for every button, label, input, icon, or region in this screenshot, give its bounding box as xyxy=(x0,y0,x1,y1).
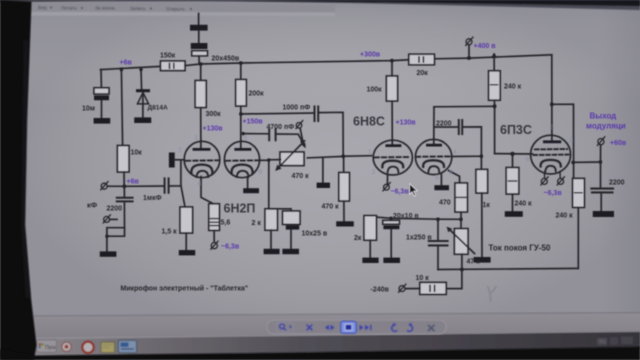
ground xyxy=(505,211,523,217)
svg-text:Д814А: Д814А xyxy=(148,105,168,112)
resistor R8 inner mark xyxy=(508,180,516,182)
arrowhead xyxy=(447,227,453,233)
resistor R7 240k leads xyxy=(493,55,496,107)
capacitor C1 10uF plate xyxy=(94,88,109,94)
svg-text:240 к: 240 к xyxy=(504,84,522,91)
value labels dark xyxy=(82,53,625,294)
node phi output xyxy=(598,139,604,145)
capacitor C8 bottom lead xyxy=(600,193,602,211)
arrowhead xyxy=(301,143,306,149)
capacitor C10 1uF plates xyxy=(165,178,169,192)
node j22 xyxy=(599,160,602,163)
svg-text:Выход: Выход xyxy=(590,112,617,121)
node phi input xyxy=(101,183,107,189)
svg-text:6Н2П: 6Н2П xyxy=(224,202,256,216)
node j9 xyxy=(510,152,514,156)
taskbar start button xyxy=(37,340,57,353)
voltage labels purple xyxy=(120,43,627,251)
svg-text:2200: 2200 xyxy=(436,121,452,128)
svg-text:▼: ▼ xyxy=(189,6,193,11)
potentiometer P1 470k body xyxy=(280,152,304,166)
svg-text:1: 1 xyxy=(368,149,372,156)
svg-text:2: 2 xyxy=(550,124,554,131)
svg-text:240 к: 240 к xyxy=(556,213,574,220)
tube V1b 6N2P right envelope xyxy=(224,141,259,177)
mouse cursor xyxy=(410,184,418,197)
resistor R12 10k bias body xyxy=(420,282,446,294)
ground xyxy=(282,249,299,254)
node phi heater3a slash xyxy=(541,177,548,185)
ground xyxy=(134,117,151,123)
capacitor C2 plate1 xyxy=(190,25,208,31)
svg-text:10х25 в: 10х25 в xyxy=(302,231,328,238)
resistor R11 bottom lead xyxy=(369,240,371,257)
svg-text:Ток покоя ГУ-50: Ток покоя ГУ-50 xyxy=(489,244,551,253)
resistor R3 200k body xyxy=(236,80,247,107)
svg-text:1000 пФ: 1000 пФ xyxy=(283,105,311,112)
node phi mic slash xyxy=(103,215,110,223)
resistor R6 marks xyxy=(419,57,423,62)
svg-text:470 к: 470 к xyxy=(322,204,340,211)
resistor R1 marks xyxy=(170,64,174,69)
wire cathode link xyxy=(452,155,482,157)
node phi heater2 slash xyxy=(383,183,390,191)
node j2 xyxy=(139,68,142,71)
tube type labels xyxy=(224,115,532,216)
capacitor C4 right lead arrow xyxy=(277,134,305,146)
tube V2a cathode arch xyxy=(382,161,403,168)
component 5.6 body xyxy=(209,204,220,231)
svg-text:~6,3в: ~6,3в xyxy=(391,189,410,196)
resistor R7 240k body xyxy=(489,71,501,100)
svg-text:150к: 150к xyxy=(160,53,176,60)
wire input to junction xyxy=(107,185,124,187)
node j14 xyxy=(267,158,270,161)
resistor R13 bottom lead xyxy=(577,207,579,268)
resistor R15 1k5 body xyxy=(180,207,193,233)
potentiometer P2 47k top lead xyxy=(460,219,462,228)
node phi -240v xyxy=(399,286,405,292)
svg-text:9: 9 xyxy=(259,169,263,176)
svg-text:Запись: Запись xyxy=(130,6,146,12)
schematic drawing layer xyxy=(94,14,614,295)
svg-text:+300в: +300в xyxy=(360,52,381,59)
ground xyxy=(434,185,449,190)
wire cap 10x25 link xyxy=(269,209,291,211)
svg-text:2 к: 2 к xyxy=(252,220,262,227)
svg-text:10м: 10м xyxy=(82,106,95,113)
svg-text:+150в: +150в xyxy=(243,119,264,126)
resistor R16 bottom lead xyxy=(270,230,272,249)
zener diode D1 triangle xyxy=(137,93,148,104)
capacitor C4 4700pF left lead xyxy=(243,133,268,135)
node j16 xyxy=(105,235,108,238)
node phi heater3b slash xyxy=(557,177,564,185)
ground xyxy=(593,211,614,217)
wire 6N8S right anode lead xyxy=(433,107,435,145)
tube V2a heater cup xyxy=(388,167,399,173)
potentiometer P2 arrow xyxy=(450,230,475,254)
node phi +400 slash xyxy=(466,37,473,45)
capacitor C7 plates xyxy=(429,241,448,245)
node j11 xyxy=(239,112,242,115)
tube V2b anode bar xyxy=(426,144,442,147)
capacitor C2 bottom lead xyxy=(198,56,200,64)
svg-text:1х250 в: 1х250 в xyxy=(406,235,432,242)
potentiometer P1 wiper stub xyxy=(300,128,302,140)
svg-text:6П3С: 6П3С xyxy=(500,123,532,137)
capacitor C8 2200 out plates xyxy=(591,189,613,193)
node phi heater1 xyxy=(211,243,217,249)
monitor left bezel xyxy=(0,0,37,360)
tube V2a grid dashes xyxy=(375,156,411,158)
capacitor C1 bottom lead xyxy=(101,100,103,118)
node phi heater2 xyxy=(384,184,390,190)
wire output phi stub xyxy=(600,146,602,188)
grid bar 6N2P input xyxy=(169,153,175,168)
tube V1b grid dashes xyxy=(226,159,259,162)
wire pot link xyxy=(307,156,343,158)
ground xyxy=(94,118,111,124)
monitor top bezel xyxy=(0,0,640,10)
zener diode D1 cathode bar xyxy=(136,89,150,92)
tube V1a grid dashes xyxy=(186,159,218,162)
resistor R12 marks xyxy=(430,286,435,292)
svg-text:4: 4 xyxy=(198,181,202,188)
tube V1a heater cup xyxy=(197,171,209,177)
svg-text:Печать: Печать xyxy=(61,5,77,11)
svg-text:47 к: 47 к xyxy=(467,259,481,266)
resistor R4 470k body xyxy=(339,173,350,202)
node phi pot slash xyxy=(296,121,303,129)
wire HT bus right section xyxy=(434,55,551,59)
resistor R14 bottom lead xyxy=(123,172,125,186)
tube V1b cathode lead xyxy=(247,177,249,188)
capacitor C7 1x250 top lead xyxy=(437,219,439,240)
wire mic to coupling cap xyxy=(124,185,163,187)
wire bias rail xyxy=(438,268,578,269)
tube V2a cathode lead xyxy=(386,175,388,184)
capacitor C9 bottom lead xyxy=(123,202,125,227)
ground xyxy=(362,258,378,263)
tube V1b anode bar xyxy=(234,148,251,151)
tube V2a anode bar xyxy=(385,144,401,147)
tube V2b grid dashes xyxy=(416,155,452,157)
tube V2b cathode arch xyxy=(423,160,444,167)
microphone M1 loop xyxy=(107,228,125,237)
wire output tap xyxy=(573,161,600,163)
right edge shading xyxy=(0,0,1,1)
wire grid drop 6P3S xyxy=(494,106,496,153)
wire +6v rail top-left xyxy=(101,66,161,69)
node j23 xyxy=(550,103,554,107)
svg-text:1: 1 xyxy=(195,135,199,142)
svg-text:2к: 2к xyxy=(354,235,362,242)
resistor R10 bottom lead xyxy=(460,212,462,219)
resistor R13 240k body xyxy=(573,178,585,207)
component 5.6 bottom lead xyxy=(213,230,215,241)
component 5.6 marks xyxy=(210,219,217,226)
tube V3 cathode arch xyxy=(541,160,561,167)
capacitor C5 2200 left lead xyxy=(434,126,458,128)
svg-text:+60в: +60в xyxy=(610,140,627,147)
capacitor C7 bottom lead xyxy=(437,246,439,269)
node j21 xyxy=(571,161,574,164)
svg-text:300к: 300к xyxy=(206,111,222,118)
capacitor C-10uF top lead xyxy=(100,70,102,88)
node j19 xyxy=(459,218,462,221)
tube V3 grid2 dashes xyxy=(534,154,569,156)
node j7 arrow xyxy=(491,53,497,58)
tube V3 heater leads xyxy=(545,172,561,179)
node phi slash xyxy=(399,284,406,292)
resistor R8 240k body xyxy=(506,168,519,195)
svg-text:4700 пФ: 4700 пФ xyxy=(267,124,295,131)
ground xyxy=(243,188,259,193)
node j5 xyxy=(390,59,394,63)
wire phi mic stub xyxy=(110,218,117,220)
node j24 xyxy=(301,140,304,143)
capacitor C4 plates xyxy=(269,129,275,140)
svg-text:4: 4 xyxy=(453,149,457,156)
capacitor C3 1000pF plates xyxy=(315,107,319,122)
svg-text:+130в: +130в xyxy=(203,126,224,133)
svg-text:+6в: +6в xyxy=(127,179,140,186)
wire grid bar to tube xyxy=(175,159,185,161)
capacitor C2 plate3 box xyxy=(192,51,208,56)
arrowhead xyxy=(275,165,281,171)
svg-text:Открыть: Открыть xyxy=(166,6,185,12)
tube V3 heater cup xyxy=(545,166,555,172)
resistor R5 100k leads xyxy=(391,61,393,145)
svg-text:240 к: 240 к xyxy=(515,201,533,208)
pin number labels xyxy=(178,124,574,188)
wire coupling line to C3 xyxy=(241,113,314,114)
taskbar tray xyxy=(597,337,633,346)
capacitor C2 20x450 stub xyxy=(198,14,200,25)
resistor R5 100k body xyxy=(386,76,397,101)
resistor R10 band xyxy=(457,196,467,198)
svg-text:▼: ▼ xyxy=(49,5,53,10)
node j18 xyxy=(436,218,439,221)
svg-text:1мкФ: 1мкФ xyxy=(143,195,162,202)
tube V2b 6N8S right envelope xyxy=(415,139,451,174)
wire cathode network rail xyxy=(370,217,461,220)
capacitor C11 bottom lead xyxy=(290,230,292,249)
resistor R6 20k horizontal body xyxy=(409,54,435,65)
capacitor C5 right lead xyxy=(463,127,481,169)
svg-text:10 к: 10 к xyxy=(416,275,430,282)
svg-text:6Н8С: 6Н8С xyxy=(353,115,385,129)
svg-text:20х10 в: 20х10 в xyxy=(393,213,419,220)
tube V3 anode bar xyxy=(543,140,561,143)
wire pot left link xyxy=(269,159,280,161)
node phi output slash xyxy=(597,137,604,146)
tube V2a 6N8S left envelope xyxy=(373,140,412,175)
node j20 xyxy=(460,268,464,272)
resistor R12 left lead xyxy=(405,288,419,290)
tube V1a anode bar xyxy=(193,148,211,151)
wire bias drop to 10k xyxy=(446,270,462,289)
svg-text:За жизнь: За жизнь xyxy=(95,6,116,12)
svg-text:+400 в: +400 в xyxy=(474,43,497,50)
ground xyxy=(383,258,400,263)
svg-text:+130в: +130в xyxy=(396,120,417,127)
svg-text:10к: 10к xyxy=(131,150,143,157)
svg-text:470: 470 xyxy=(439,200,451,207)
capacitor C10 right lead corner xyxy=(170,161,181,186)
svg-text:5: 5 xyxy=(435,175,439,182)
capacitor C11 plate2 xyxy=(286,225,299,229)
svg-text:20к: 20к xyxy=(417,70,429,77)
potentiometer P1 wiper arrow xyxy=(279,141,305,168)
tube V2b heater cup xyxy=(428,166,439,172)
svg-text:470 к: 470 к xyxy=(292,173,310,180)
canvas smudge xyxy=(488,286,497,302)
capacitor C3 right lead with corner xyxy=(319,112,343,156)
capacitor C6 plate1 xyxy=(383,220,400,224)
svg-text:RU: RU xyxy=(599,340,607,346)
svg-text:1к: 1к xyxy=(483,202,491,209)
svg-text:3: 3 xyxy=(372,169,376,176)
ground xyxy=(264,249,280,254)
wire grid line stage2 xyxy=(343,155,372,158)
wire grid line 6P3S xyxy=(495,153,533,155)
tube V3 grid1 dashes xyxy=(535,148,567,150)
svg-text:~6,3в: ~6,3в xyxy=(221,244,240,251)
tube V1a cathode arch xyxy=(191,165,212,174)
toolbar icons xyxy=(277,321,435,333)
svg-text:20х450в: 20х450в xyxy=(212,56,240,63)
node j17 xyxy=(389,217,392,220)
svg-text:▼: ▼ xyxy=(80,5,84,10)
node j13 xyxy=(342,155,345,158)
tube V1a 6N2P left envelope xyxy=(184,141,220,177)
node phi heater1 slash xyxy=(211,241,218,249)
resistor R9 bottom lead xyxy=(481,193,483,257)
resistor R10 470 body xyxy=(455,183,467,212)
svg-text:2: 2 xyxy=(178,147,182,154)
viewer lower chrome band below canvas xyxy=(28,313,640,342)
ground xyxy=(100,251,117,256)
wire 6P3S anode drop xyxy=(551,55,553,141)
node j1 xyxy=(120,68,123,71)
svg-text:Микрофон электретный - "Таблет: Микрофон электретный - "Таблетка" xyxy=(121,285,249,293)
ground xyxy=(474,257,491,263)
potentiometer P2 body xyxy=(454,229,468,255)
wire screen branch 6P3S xyxy=(552,104,574,178)
ground xyxy=(179,250,195,255)
capacitor C9 plates xyxy=(117,198,133,202)
wire HT bus left section xyxy=(185,60,409,66)
node j6 xyxy=(467,56,471,60)
diode top lead xyxy=(140,69,143,89)
node phi heater3b xyxy=(558,178,564,184)
svg-text:6: 6 xyxy=(449,169,453,176)
node phi pot xyxy=(296,123,302,129)
capacitor C6 bottom lead xyxy=(390,229,392,257)
tube V2b cathode lead xyxy=(440,174,442,185)
node j8 xyxy=(493,104,497,108)
svg-text:-240в: -240в xyxy=(371,287,390,294)
resistor R11 2k body xyxy=(364,216,376,241)
svg-text:5,6: 5,6 xyxy=(221,220,231,227)
wire V1b grid spur xyxy=(260,160,269,209)
node j10 xyxy=(480,155,483,158)
capacitor C5 plates xyxy=(459,120,462,134)
potentiometer P2 bottom lead xyxy=(461,254,463,269)
menu bar text xyxy=(38,5,193,12)
resistor R3 200k leads xyxy=(240,63,242,149)
resistor R14 10k input body xyxy=(117,146,129,173)
wire pot stub ground xyxy=(322,157,324,182)
node phi heater3a xyxy=(541,178,547,184)
tube V1b heater cup xyxy=(237,171,249,177)
node j3 xyxy=(199,62,203,66)
svg-text:1,5 к: 1,5 к xyxy=(162,229,178,236)
wire 10k feed vertical xyxy=(121,70,122,146)
svg-text:▼: ▼ xyxy=(149,6,153,11)
node j15 xyxy=(123,185,127,189)
capacitor C1 plate2 xyxy=(94,95,109,100)
microphone M1 ground lead xyxy=(106,236,108,251)
taskbar quick launch icons xyxy=(62,340,137,353)
resistor R7 inner mark xyxy=(491,84,498,86)
resistor R2 300k with anode lead xyxy=(200,64,202,149)
svg-text:6: 6 xyxy=(244,135,248,142)
menu bar band xyxy=(30,3,335,13)
svg-text:100к: 100к xyxy=(367,87,383,94)
monitor bottom bezel xyxy=(0,347,640,360)
viewer toolbar pill xyxy=(267,320,446,334)
resistor R10 470 elbow xyxy=(449,171,460,184)
svg-text:8: 8 xyxy=(526,156,530,163)
svg-text:+6в: +6в xyxy=(120,60,133,67)
capacitor C9 2200 mic stub xyxy=(123,186,125,196)
tube V3 6P3S envelope xyxy=(531,135,571,174)
capacitor C2 plate2 xyxy=(191,43,208,49)
svg-text:модуляци: модуляци xyxy=(586,122,626,131)
capacitor C6 plate2 xyxy=(383,225,399,229)
ground xyxy=(336,221,354,226)
capacitor C2 mid lead xyxy=(198,31,200,43)
resistor R8 240k lower leads xyxy=(512,154,514,212)
resistor R15 1k5 top lead xyxy=(181,186,185,207)
resistor R4 470k grid leak leads xyxy=(343,156,345,221)
resistor R1 150k horizontal xyxy=(161,61,186,71)
tube V1b cathode arch xyxy=(232,165,253,174)
resistor R15 bottom lead xyxy=(185,233,187,250)
svg-text:2200: 2200 xyxy=(609,180,625,187)
tube V1a cathode lead xyxy=(201,177,214,204)
svg-text:200к: 200к xyxy=(249,91,265,98)
ground xyxy=(317,183,330,188)
node j4 xyxy=(239,61,243,65)
zener diode D1 lead xyxy=(142,92,144,117)
svg-text:3: 3 xyxy=(570,138,574,145)
capacitor C11 10x25 plate1 xyxy=(283,211,300,224)
node phi input slash xyxy=(101,182,108,190)
canvas bottom edge line xyxy=(33,313,640,317)
svg-text:2200: 2200 xyxy=(107,206,123,213)
svg-text:кФ: кФ xyxy=(87,201,98,210)
svg-text:Вид: Вид xyxy=(38,5,47,11)
node j12 xyxy=(241,132,244,135)
resistor R13 inner mark xyxy=(575,192,582,194)
wire phi stub xyxy=(468,45,470,58)
windows taskbar xyxy=(34,332,640,357)
node phi +400 xyxy=(466,39,472,45)
